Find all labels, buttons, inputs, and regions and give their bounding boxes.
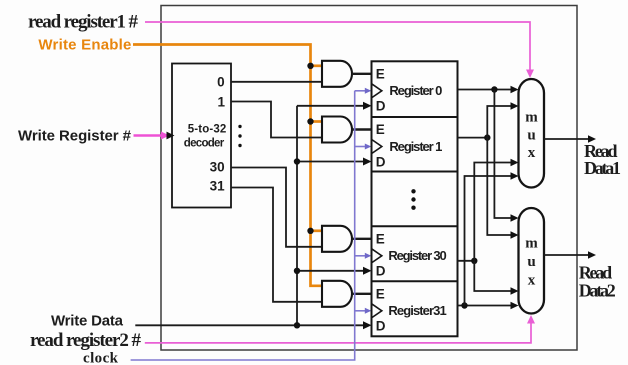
wire read register2 (magenta) to mux2 select <box>145 322 531 343</box>
register column frame <box>372 61 458 336</box>
wire clock trunk <box>131 91 355 360</box>
arrowhead into Register30 D <box>363 267 372 275</box>
wire orange branch to gate A0 <box>311 64 323 67</box>
magenta arrowhead <box>161 132 170 140</box>
svg-text:x: x <box>528 272 536 288</box>
arrowhead into mux1 in1 <box>511 102 519 110</box>
junction Register31 output <box>461 302 467 308</box>
wire decoder out 0 to gate A0 <box>231 81 322 83</box>
wire Write Enable (orange trunk) <box>133 45 322 286</box>
wire Register0 output down to mux2 <box>494 90 511 219</box>
wire clock branch to Register30 <box>355 255 365 257</box>
junction Write Data at Register30 D <box>294 268 300 274</box>
wire Register1 output down to mux2 <box>487 138 511 235</box>
register divider R1/dots <box>372 171 458 173</box>
svg-text:E: E <box>376 232 385 247</box>
wire gate A0 output to Register0 E <box>352 73 372 75</box>
svg-text:m: m <box>525 236 538 252</box>
svg-text:Register31: Register31 <box>388 303 446 318</box>
svg-text:D: D <box>376 319 386 334</box>
junction Write Data at bottom <box>294 322 300 328</box>
svg-text:Data2: Data2 <box>579 281 616 301</box>
svg-text:D: D <box>376 264 386 279</box>
svg-text:u: u <box>527 254 535 270</box>
and gate A0 <box>322 61 352 87</box>
arrowhead into Register1 D <box>363 158 372 166</box>
wire Register30 output <box>458 260 475 262</box>
svg-text:u: u <box>527 128 535 144</box>
wire orange branch to gate A30 <box>311 229 323 232</box>
mux U6 (read port 2) <box>519 208 545 314</box>
svg-text:D: D <box>376 154 386 169</box>
wire Write Data branch to Register0 D <box>297 105 364 107</box>
wire Write Data horizontal bus <box>135 324 364 326</box>
junction Register0 output <box>491 86 497 92</box>
svg-text:Register 0: Register 0 <box>389 83 442 98</box>
svg-text:Register 1: Register 1 <box>389 139 442 154</box>
wire Register1 output up to mux1 <box>487 106 511 138</box>
arrowhead Read Data2 <box>588 251 596 259</box>
decoder ellipsis dots <box>238 125 241 128</box>
wire clock branch to Register31 <box>355 310 365 312</box>
arrowhead into mux2 in1 <box>511 231 519 239</box>
svg-text:0: 0 <box>217 75 225 90</box>
junction on write enable at A0 <box>307 63 313 69</box>
and gate A31 <box>322 281 352 307</box>
svg-text:30: 30 <box>210 160 225 175</box>
arrowhead into mux2 in3 <box>511 302 519 310</box>
junction Write Data at Register1 D <box>294 158 300 164</box>
wire orange branch to gate A1 <box>311 120 323 123</box>
wire Register31 output up to mux1 <box>465 176 512 306</box>
and gate A30 <box>322 226 352 252</box>
arrowhead into mux2 in0 <box>511 214 519 222</box>
svg-text:1: 1 <box>217 95 225 110</box>
svg-text:m: m <box>525 110 538 126</box>
arrowhead into Register0 D <box>363 102 372 110</box>
wire clock branch to Register0 <box>355 90 365 92</box>
arrowhead into mux2 in2 <box>511 287 519 295</box>
junction on write enable at A1 <box>307 118 313 124</box>
mux U5 (read port 1) <box>519 79 545 188</box>
junction Register30 output <box>471 258 477 264</box>
svg-text:read register1 #: read register1 # <box>28 11 139 32</box>
wire gate A30 output to Register30 E <box>352 238 372 240</box>
svg-text:Read: Read <box>579 263 613 283</box>
wire Register0 output <box>458 89 512 91</box>
wire Register1 output <box>458 137 488 139</box>
svg-text:31: 31 <box>210 179 226 194</box>
wire read register1 (magenta) to mux1 select <box>145 22 530 71</box>
black arrowhead into decoder <box>167 132 175 140</box>
wire Write Data branch to Register30 D <box>297 270 364 272</box>
arrowhead into mux2 bottom <box>527 315 535 324</box>
wire mux1 output Read Data1 <box>544 138 589 140</box>
svg-text:Register 30: Register 30 <box>388 248 446 263</box>
wire gate A1 output to Register1 E <box>352 128 372 130</box>
and gate A1 <box>322 117 352 143</box>
blue arrowhead Register1 clock <box>365 144 372 150</box>
wire write register number (magenta) <box>134 134 165 137</box>
blue arrowhead Register31 clock <box>365 308 372 314</box>
arrowhead into mux1 in2 <box>511 159 519 167</box>
arrowhead into Register31 D <box>363 321 372 329</box>
wire Register31 output <box>458 305 512 307</box>
outer enclosure box <box>161 6 577 351</box>
wire decoder out 30 to gate A30 <box>231 168 322 247</box>
decoder 5-to-32 <box>172 64 231 208</box>
wire gate A31 output to Register31 E <box>352 293 372 295</box>
wire Register30 output up to mux1 <box>474 163 511 261</box>
arrowhead Read Data1 <box>588 135 596 143</box>
svg-text:decoder: decoder <box>184 138 225 150</box>
wire decoder out 31 to gate A31 <box>231 188 322 302</box>
register divider R30/R31 <box>372 280 458 282</box>
wire decoder out 1 to gate A1 <box>231 102 322 138</box>
register divider dots/R30 <box>372 225 458 227</box>
arrowhead into mux1 in0 <box>511 86 519 94</box>
svg-text:Data1: Data1 <box>584 158 621 178</box>
register divider R0/R1 <box>372 116 458 118</box>
wire mux2 output Read Data2 <box>544 254 589 256</box>
wire Write Data branch to Register1 D <box>297 161 364 163</box>
svg-text:5-to-32: 5-to-32 <box>188 123 227 135</box>
svg-text:Write Register #: Write Register # <box>18 128 132 145</box>
blue arrowhead Register30 clock <box>365 253 372 259</box>
junction on write enable at A30 <box>307 228 313 234</box>
svg-text:D: D <box>376 99 386 114</box>
svg-text:E: E <box>376 287 385 302</box>
arrowhead into mux1 top <box>526 70 534 79</box>
svg-text:read register2 #: read register2 # <box>30 330 142 351</box>
svg-text:Write Enable: Write Enable <box>38 37 131 54</box>
wire clock branch to Register1 <box>355 146 365 148</box>
arrowhead into mux1 in3 <box>511 172 519 180</box>
junction Register1 output <box>484 134 490 140</box>
wire Register30 output down to mux2 <box>474 261 511 291</box>
blue arrowhead Register0 clock <box>365 88 372 94</box>
svg-text:clock: clock <box>83 350 119 365</box>
wire Write Data vertical bus <box>296 106 298 325</box>
svg-text:x: x <box>528 145 536 161</box>
svg-text:E: E <box>376 67 385 82</box>
svg-text:E: E <box>376 122 385 137</box>
svg-text:Write Data: Write Data <box>51 312 124 329</box>
register column ellipsis <box>411 189 415 193</box>
